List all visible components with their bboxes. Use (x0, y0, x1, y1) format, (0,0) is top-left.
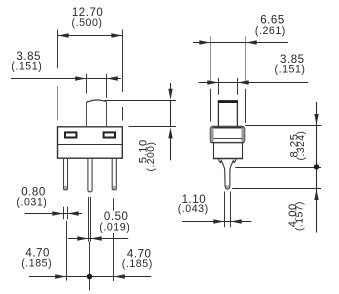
dimension 5.10 leader bottom (129, 126, 177, 128)
svg-text:(.019): (.019) (99, 222, 130, 234)
svg-text:(.157): (.157) (294, 201, 305, 231)
dimension 3.85 side ext line left (218, 78, 220, 95)
dimension 4.70 ext line right (pin3 centerline) (113, 198, 115, 211)
dimension 4.70 line (29, 276, 151, 278)
needle pin side view (225, 170, 230, 189)
svg-text:(.261): (.261) (255, 25, 286, 37)
terminal window right (104, 132, 115, 137)
svg-text:(.500): (.500) (72, 17, 103, 29)
cap inner line (214, 138, 243, 140)
svg-text:(.185): (.185) (122, 258, 153, 270)
dimension 3.85 ext line left (86, 74, 88, 94)
dimension 8.25 vertical line (316, 102, 318, 233)
cap (mounting bushing) side view (210, 126, 244, 142)
pin taper right barb (230, 159, 236, 169)
pin 1 front (64, 158, 68, 190)
leader needle shoulder (235, 167, 321, 169)
dimension 6.65 ext line right (gray) (245, 37, 247, 82)
leader cap top (245, 125, 321, 127)
dimension 5.10 leader top (104, 100, 176, 102)
dimension 3.85 side line (199, 82, 308, 84)
cap bottom edge (211, 142, 245, 144)
dimension 3.85 ext line right (106, 74, 108, 98)
dimension 1.10 ext line left (224, 192, 226, 228)
dimension 4.70 ext line left (pin1 centerline) (66, 221, 68, 281)
dimension 1.10 ext line right (230, 192, 232, 228)
dimension 8.25 arrow down (314, 114, 318, 125)
actuator left side (86, 103, 88, 127)
pin 3 front (112, 158, 116, 190)
body bottom edge side (213, 158, 243, 160)
dimension 12.70 ext line right (upper) (122, 30, 124, 93)
svg-text:(.151): (.151) (11, 60, 42, 72)
dimension 12.70 line (58, 35, 122, 37)
junction dot middle pin (87, 274, 93, 280)
dimension 6.65 ext line left lower (black) (210, 89, 212, 122)
dimension 0.80 line (25, 213, 83, 215)
body lower side right edge (242, 143, 244, 159)
switch body front view (58, 127, 123, 158)
svg-text:(.043): (.043) (178, 203, 209, 215)
body divider line (58, 144, 123, 146)
dimension 3.85 line (11, 78, 121, 80)
dimension 6.65 ext line right lower (black) (245, 89, 247, 123)
svg-text:(.324): (.324) (296, 131, 307, 161)
svg-text:(.151): (.151) (275, 63, 306, 75)
dimension 0.50 line (68, 238, 128, 240)
svg-text:(.200): (.200) (146, 142, 157, 172)
cap top dark band (211, 127, 244, 129)
svg-text:(.185): (.185) (21, 258, 52, 270)
dimension 0.50 ext lines (pin2 edges) (88, 197, 90, 242)
dimension 12.70 ext line left (gray lower) (57, 86, 59, 121)
body lower side left edge (213, 143, 215, 159)
dimension 5.10 arrow down (170, 83, 172, 94)
actuator serrated dome top (86, 100, 106, 103)
terminal window left (65, 132, 76, 137)
needle pin gray tip (226, 185, 229, 188)
actuator side view (218, 101, 237, 127)
dimension 4.00 arrow up (314, 189, 318, 200)
dimension 12.70 ext line left (black) (57, 30, 59, 69)
dimension 5.10 line between leaders (170, 101, 172, 127)
cap right gray band (242, 127, 245, 142)
pin 2 front (middle, longer) (88, 158, 92, 192)
junction dot 8.25/4.00 (314, 164, 319, 169)
dimension 4.70 centerline middle (pin2) (89, 242, 91, 291)
dimension 1.10 line (182, 221, 251, 223)
leader pin tip (232, 188, 321, 190)
dimension 12.70 ext line right (lower) (122, 107, 124, 121)
actuator top dark band (218, 100, 238, 103)
actuator right side (106, 102, 108, 127)
dimension 3.85 side ext line right (237, 78, 239, 95)
svg-text:(.031): (.031) (16, 196, 47, 208)
dimension 0.80 ext lines (pin1 edges) (63, 207, 65, 220)
dimension 6.65 ext line left (gray) (210, 37, 212, 82)
dimension 6.65 line (193, 42, 288, 44)
pin taper left barb (219, 159, 225, 169)
dimension 5.10 arrow up (170, 133, 172, 160)
cap left gray band (211, 127, 214, 142)
